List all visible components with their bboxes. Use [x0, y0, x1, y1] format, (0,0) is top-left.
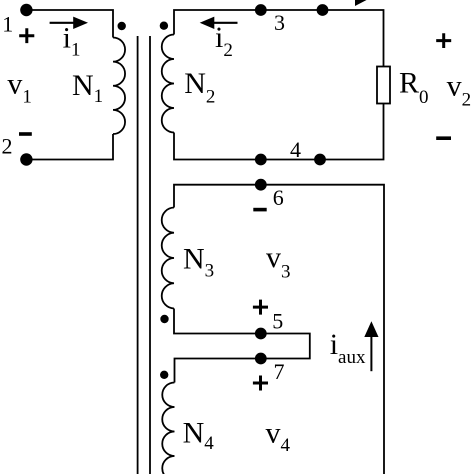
svg-text:6: 6 [273, 185, 284, 210]
svg-text:3: 3 [274, 10, 285, 35]
svg-text:4: 4 [290, 137, 301, 162]
svg-text:5: 5 [272, 309, 283, 334]
svg-text:2: 2 [2, 134, 13, 159]
svg-text:1: 1 [2, 12, 13, 37]
svg-text:7: 7 [274, 359, 285, 384]
